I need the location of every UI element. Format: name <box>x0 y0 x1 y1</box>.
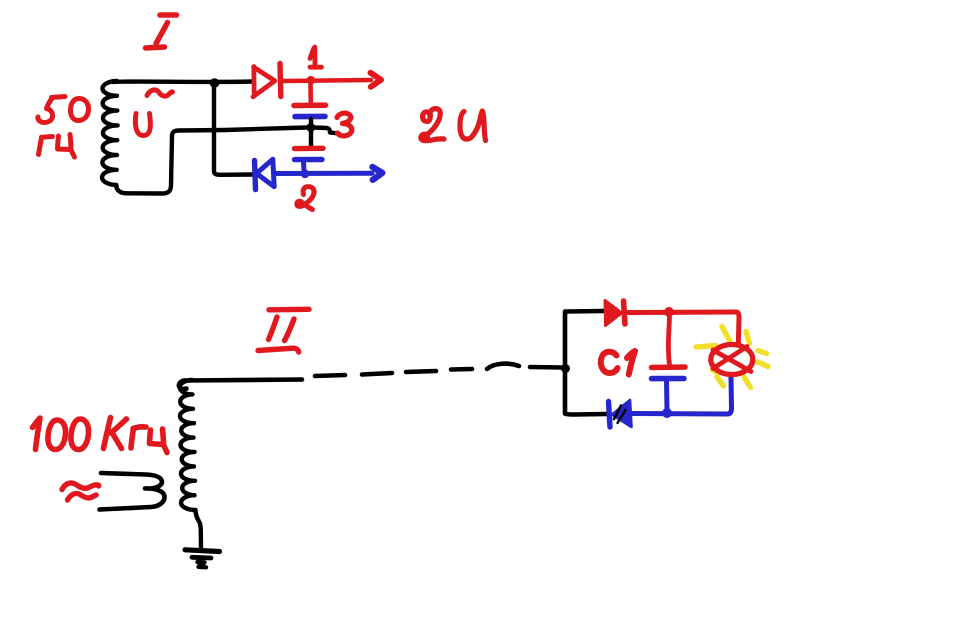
label 3 <box>337 113 352 136</box>
wire red top to lamp <box>626 312 739 344</box>
wire dashed coupling line <box>179 364 563 389</box>
label Гц <box>39 135 75 158</box>
capacitor upper (node1-node3) <box>294 84 326 124</box>
node 3 <box>306 123 315 132</box>
label I <box>146 15 177 48</box>
label 2 <box>297 187 314 210</box>
label 50 <box>38 97 89 123</box>
capacitor C1 <box>652 317 686 409</box>
node D <box>662 408 672 418</box>
label U <box>135 114 150 136</box>
wire blue bottom to lamp <box>631 377 732 414</box>
capacitor lower (node3-node2) <box>295 130 324 171</box>
node 1 <box>306 76 315 85</box>
node 2 <box>301 170 310 179</box>
wire secondary top <box>113 79 252 84</box>
label 100 Кгц <box>33 418 168 453</box>
node B <box>561 364 570 373</box>
wire node 3 stub <box>315 128 339 134</box>
inductor L1 <box>102 81 126 193</box>
label C1 <box>601 351 635 375</box>
node A <box>210 78 220 88</box>
node C <box>664 307 674 317</box>
wire red output 1 with arrowhead <box>283 73 381 87</box>
label 1 <box>310 47 322 67</box>
diode VD3 <box>605 301 625 326</box>
wire node A down to VD2 <box>214 85 252 175</box>
lamp rays <box>696 327 768 388</box>
diode VD2 <box>255 159 275 189</box>
wire blue output 2 with arrowhead <box>276 167 382 180</box>
label ≈ <box>62 483 99 500</box>
lamp HL1 <box>711 345 753 375</box>
label II <box>258 309 309 352</box>
inductor L2 <box>180 380 201 548</box>
label ~ (above U) <box>147 90 173 96</box>
ground <box>185 550 220 568</box>
diode VD4 <box>609 400 632 427</box>
wire coil bottom / middle to node 3 <box>126 128 306 194</box>
label 2U <box>421 109 486 141</box>
wire right circuit black <box>565 311 607 415</box>
ac source terminals with coupling curl <box>100 473 165 510</box>
diode VD1 <box>253 64 281 97</box>
